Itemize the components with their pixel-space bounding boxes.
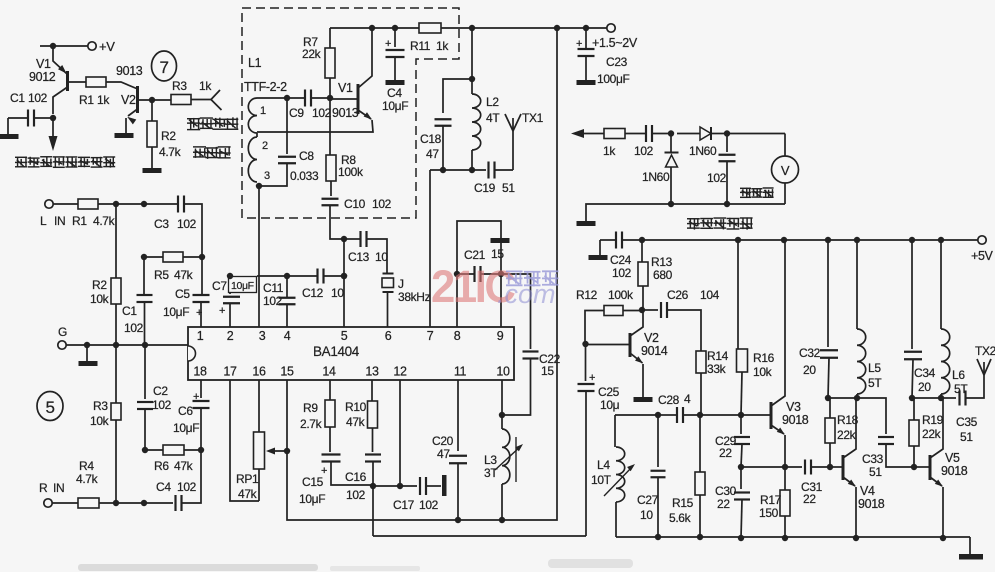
svg-text:47k: 47k [346,415,366,429]
svg-text:10k: 10k [90,414,110,428]
svg-text:C30: C30 [715,484,737,498]
svg-text:51: 51 [960,430,973,444]
capacitor C32 20 [827,240,829,347]
svg-text:102: 102 [707,171,727,185]
wire L1 top to C9 [257,97,304,99]
svg-text:J: J [398,277,404,291]
svg-text:10: 10 [496,365,510,379]
capacitor C20 47 [457,380,459,451]
ground detector [577,221,596,226]
svg-text:10μF: 10μF [382,99,408,113]
voltmeter V [727,133,785,135]
svg-text:+1.5~2V: +1.5~2V [592,36,638,50]
wire top rail in box [330,27,419,29]
wire detector ground bus [586,204,785,221]
svg-text:C24: C24 [610,253,632,267]
svg-text:47k: 47k [174,459,194,473]
wire V1 collector output [52,118,54,137]
capacitor C2 102 [144,345,146,399]
svg-text:102: 102 [177,217,197,231]
resistor R14 33k [696,351,706,373]
svg-text:IN: IN [54,214,65,228]
svg-text:51: 51 [869,465,882,479]
svg-text:R3: R3 [172,79,187,93]
svg-text:TTF-2-2: TTF-2-2 [244,80,287,94]
svg-text:10T: 10T [591,473,612,487]
resistor R17 150 [784,467,786,490]
terminal +V [88,42,96,50]
svg-text:V2: V2 [644,331,659,345]
resistor R10 47k [371,380,373,401]
svg-text:C1: C1 [10,91,25,105]
wire long supply drop [556,28,557,520]
svg-text:33k: 33k [707,362,727,376]
svg-text:C8: C8 [299,149,314,163]
ground under C23 [577,80,596,85]
svg-text:150: 150 [759,506,779,520]
svg-text:V1: V1 [338,81,353,95]
svg-text:+: + [196,307,202,319]
capacitor C17 102 [373,485,417,487]
svg-text:C25: C25 [598,385,620,399]
svg-text:R5: R5 [154,268,169,282]
svg-text:C15: C15 [302,475,324,489]
svg-text:2.7k: 2.7k [300,417,323,431]
terminal +5V [978,236,986,244]
diode 1N60 series [700,127,711,140]
svg-text:104: 104 [700,288,720,302]
svg-text:6: 6 [385,329,392,343]
capacitor C13 10 [344,238,360,240]
svg-text:C23: C23 [606,55,628,69]
resistor R15 5.6k [695,472,705,495]
resistor R16 10k [737,240,739,349]
svg-text:9013: 9013 [332,106,359,120]
svg-text:3: 3 [264,170,270,182]
svg-text:680: 680 [653,268,673,282]
capacitor C8 0.033 [286,98,288,154]
diode 1N60 shunt [670,134,672,153]
svg-text:20: 20 [803,363,816,377]
svg-text:C5: C5 [175,287,190,301]
svg-text:+5V: +5V [971,249,994,263]
crystal J 38kHz [383,273,394,275]
svg-text:100k: 100k [338,165,364,179]
svg-text:7: 7 [427,329,434,343]
svg-text:C33: C33 [862,452,884,466]
svg-text:R9: R9 [303,401,318,415]
svg-text:4T: 4T [486,111,500,125]
svg-text:102: 102 [372,197,392,211]
svg-text:102: 102 [419,498,439,512]
wire rail R11 to supply [441,27,607,29]
ground V2 emitter [634,397,653,402]
wire ground bus bottom [616,536,970,538]
svg-text:TX2: TX2 [975,344,995,358]
capacitor C5 10uF [201,257,203,294]
svg-text:V1: V1 [36,57,51,71]
svg-text:L6: L6 [952,368,965,382]
svg-text:C3: C3 [154,217,169,231]
svg-text:102: 102 [124,321,144,335]
inductor L4 10T adjustable [614,415,616,447]
svg-text:R2: R2 [92,278,107,292]
svg-text:16: 16 [252,365,266,379]
transistor V3 9018 [701,414,770,416]
ground main [959,554,983,560]
svg-text:R: R [39,481,48,495]
svg-text:C27: C27 [637,493,659,507]
svg-text:5T: 5T [868,376,882,390]
svg-text:C11: C11 [263,281,284,295]
svg-text:100k: 100k [608,288,634,302]
svg-text:9013: 9013 [116,64,143,78]
ground under C1 [0,134,19,139]
arrow RF detector output [571,129,584,138]
svg-text:C16: C16 [345,470,367,484]
svg-text:102: 102 [177,480,197,494]
svg-text:22: 22 [719,446,732,460]
svg-text:10μF: 10μF [231,280,254,292]
svg-text:L4: L4 [597,458,610,472]
svg-text:C18: C18 [420,132,442,146]
svg-text:R10: R10 [345,400,367,414]
terminal G [58,341,66,349]
transistor V2 9014 [629,333,632,357]
svg-text:15: 15 [280,365,294,379]
svg-text:13: 13 [365,365,379,379]
svg-text:1k: 1k [436,39,449,53]
resistor R18 22k [828,397,857,399]
svg-text:10μF: 10μF [173,421,199,435]
resistor R3 10k (audio) [115,345,117,403]
svg-text:2: 2 [262,140,268,152]
wire L2 column [471,28,473,94]
terminal L IN [45,200,53,208]
capacitor C9 102 [304,90,306,107]
svg-text:38kHz: 38kHz [398,290,431,304]
capacitor C4 102 (audio) [174,495,176,511]
capacitor C7 10uF boxed [229,292,231,294]
wire pin12 column [399,380,401,486]
svg-text:R19: R19 [922,413,944,427]
capacitor C22 15 [501,274,531,349]
IC BA1404 [188,327,514,380]
wire pin7 riser [429,170,431,327]
wire C18/L2 bottom node [430,169,486,171]
svg-text:102: 102 [152,398,172,412]
svg-text:L: L [40,214,47,228]
label digital signal input [187,118,200,130]
wire R1 to V2 collector [106,82,137,89]
svg-text:9: 9 [497,329,504,343]
svg-text:R17: R17 [760,493,782,507]
svg-text:7: 7 [159,58,168,77]
capacitor C30 22 [740,467,742,489]
resistor R5 47k [144,256,163,258]
capacitor 102 detector [645,125,647,142]
resistor R1 4.7k (audio) [53,203,78,205]
svg-text:.com: .com [497,279,556,309]
svg-text:R4: R4 [79,459,94,473]
svg-text:11: 11 [454,365,467,379]
svg-text:18: 18 [193,365,207,379]
svg-text:+: + [589,372,595,384]
wire pin5 column [343,239,345,327]
transistor V1 9012 [66,71,69,91]
potentiometer RP1 47k [258,380,260,432]
svg-text:9018: 9018 [782,413,809,427]
svg-text:1: 1 [197,329,204,343]
svg-text:10: 10 [375,250,388,264]
transistor V1 9013 (oscillator) [357,84,360,114]
svg-text:47k: 47k [174,268,194,282]
wire L IN bus [98,203,178,205]
svg-text:C13: C13 [348,250,370,264]
transistor V2 9013 [136,86,139,113]
resistor R1 1k [69,81,86,83]
svg-text:1k: 1k [97,93,110,107]
svg-text:0.033: 0.033 [290,169,319,183]
svg-text:C28: C28 [658,393,680,407]
wire ground bus G [66,344,188,346]
svg-text:10μF: 10μF [163,305,189,319]
wire bottom bus upper [288,519,556,521]
resistor R2 10k (audio) [115,204,117,278]
svg-text:V2: V2 [121,93,136,107]
svg-text:17: 17 [223,365,237,379]
svg-text:R15: R15 [672,496,694,510]
svg-text:C1: C1 [122,304,137,318]
wire L1 bottom to pin3 [258,186,260,327]
capacitor 102 meter [726,134,728,153]
svg-text:47: 47 [426,147,439,161]
svg-text:G: G [58,325,67,339]
circled 7 [152,51,177,81]
ground under R2 [143,168,162,173]
svg-text:R16: R16 [753,351,775,365]
svg-text:5: 5 [45,398,54,417]
svg-text:15: 15 [541,364,554,378]
svg-text:RP1: RP1 [236,472,259,486]
svg-text:R1: R1 [79,93,94,107]
circled 5 [37,392,63,421]
svg-text:51: 51 [502,181,515,195]
capacitor C15 10uF [329,427,331,452]
antenna TX2 [977,359,984,375]
svg-text:C19: C19 [474,181,496,195]
svg-text:L1: L1 [248,56,262,70]
digital input connector [191,99,211,101]
inductor L2 4T [472,94,481,150]
capacitor C21 15 [457,273,474,275]
capacitor C31 22 [741,466,802,468]
capacitor C24 102 [599,240,601,255]
svg-text:1k: 1k [603,144,616,158]
wire +V rail top-left [40,45,90,47]
svg-text:47: 47 [437,447,450,461]
scan smudge marks [78,559,633,571]
ground at C24 [589,255,608,260]
svg-text:9018: 9018 [941,464,968,478]
svg-text:10μF: 10μF [299,492,325,506]
label to driver stage power [15,157,27,168]
arrow output to driver stage [49,136,58,151]
capacitor C12 10 [287,275,317,277]
wire pin2-pin4 top bus [229,275,231,278]
capacitor C11 102 [286,276,288,297]
resistor R11 1k [419,23,441,33]
svg-text:C35: C35 [956,415,978,429]
svg-text:R11: R11 [410,39,431,53]
svg-text:3T: 3T [484,466,498,480]
terminal R IN [44,499,52,507]
svg-text:C4: C4 [387,86,402,100]
svg-text:R13: R13 [651,255,673,269]
svg-text:C32: C32 [799,346,821,360]
ground C21 loop [491,238,510,243]
svg-text:V4: V4 [860,484,875,498]
svg-text:+: + [576,38,582,50]
svg-text:R2: R2 [161,129,176,143]
svg-text:IN: IN [53,481,64,495]
svg-text:100μF: 100μF [597,72,630,86]
svg-text:1k: 1k [199,79,212,93]
resistor R9 2.7k [329,380,331,400]
capacitor C28 4 [676,407,678,423]
svg-text:5.6k: 5.6k [669,511,692,525]
capacitor C35 51 [941,397,956,399]
label RF detector [687,218,700,229]
antenna TX1 [512,131,514,170]
svg-text:C34: C34 [914,366,936,380]
svg-text:5: 5 [341,329,348,343]
svg-text:102: 102 [634,144,654,158]
svg-text:R12: R12 [576,288,598,302]
resistor R19 22k [912,397,941,399]
svg-text:2: 2 [227,329,234,343]
capacitor C4 10uF [394,28,396,47]
svg-text:12: 12 [393,365,407,379]
resistor R7 22k [329,78,331,98]
svg-text:8: 8 [454,329,461,343]
capacitor C23 100uF [585,28,587,49]
transistor V5 9018 [929,455,932,480]
svg-text:10: 10 [331,286,344,300]
svg-text:+: + [219,305,225,317]
svg-text:9018: 9018 [858,497,885,511]
svg-text:47k: 47k [238,487,258,501]
svg-text:C21: C21 [464,248,486,262]
svg-text:TX1: TX1 [522,111,544,125]
svg-text:10: 10 [640,508,653,522]
svg-text:9012: 9012 [29,70,56,84]
wire pin17 to RP1 bottom [230,380,259,501]
svg-text:C10: C10 [344,197,366,211]
svg-text:1N60: 1N60 [689,144,717,158]
capacitor C3 102 [177,196,179,213]
capacitor C26 104 [642,309,658,311]
svg-text:BA1404: BA1404 [313,344,360,359]
capacitor C34 20 [911,240,913,349]
resistor 1k detector [584,133,604,135]
wire R IN bus [99,502,173,504]
svg-text:14: 14 [322,365,336,379]
svg-text:22k: 22k [302,47,322,61]
svg-text:V3: V3 [786,400,801,414]
svg-text:4.7k: 4.7k [159,145,182,159]
svg-text:4: 4 [684,392,691,406]
svg-text:4: 4 [284,329,291,343]
svg-text:102: 102 [346,488,366,502]
capacitor C33 51 [857,398,886,434]
svg-text:R3: R3 [93,399,108,413]
svg-text:10k: 10k [90,292,110,306]
svg-text:R6: R6 [154,459,169,473]
svg-text:4.7k: 4.7k [76,472,99,486]
capacitor C16 102 [372,428,374,452]
svg-text:4.7k: 4.7k [93,214,116,228]
capacitor C27 10 [657,415,659,467]
transistor V4 9018 [830,466,842,468]
svg-text:C26: C26 [667,288,689,302]
svg-text:C20: C20 [432,434,454,448]
svg-text:C12: C12 [302,286,324,300]
wire pin15 column [287,380,288,520]
capacitor C1 102 (audio) [143,257,145,294]
label voltmeter [740,188,751,198]
wire +5V rail [622,239,978,241]
wire pin9 column [500,274,502,327]
capacitor C10 102 [330,181,332,196]
svg-text:102: 102 [312,106,332,120]
resistor R6 47k [145,449,163,451]
svg-text:22k: 22k [922,427,942,441]
resistor R8 100k [329,99,331,155]
wire pin8 to ground loop [457,221,501,274]
svg-text:10k: 10k [753,365,773,379]
capacitor C25 10u [582,341,588,347]
inductor L5 5T [856,240,858,329]
resistor R2 4.7k [151,100,153,121]
svg-text:+: + [193,391,199,403]
wire pin8 stub [456,274,458,327]
svg-text:22: 22 [717,497,730,511]
resistor R4 4.7k [52,502,78,504]
svg-text:C7: C7 [212,279,227,293]
svg-text:L2: L2 [486,95,499,109]
svg-text:+V: +V [99,39,115,54]
svg-text:L3: L3 [484,453,497,467]
svg-text:C6: C6 [178,404,193,418]
dashed enclosure L1 oscillator [242,8,459,218]
svg-text:1N60: 1N60 [642,170,670,184]
svg-text:+: + [385,38,391,50]
svg-text:L5: L5 [868,361,881,375]
svg-text:102: 102 [28,91,48,105]
svg-text:102: 102 [263,294,283,308]
ground at G [86,345,88,361]
ground under C4 [386,80,405,85]
capacitor C18 47 [443,79,472,113]
svg-text:9014: 9014 [641,344,668,358]
svg-text:1: 1 [260,105,266,117]
svg-text:V5: V5 [945,451,960,465]
svg-text:10μ: 10μ [600,398,620,412]
svg-text:V: V [781,163,790,178]
resistor R13 680 [641,240,643,262]
wire C16 junction down [372,486,374,536]
